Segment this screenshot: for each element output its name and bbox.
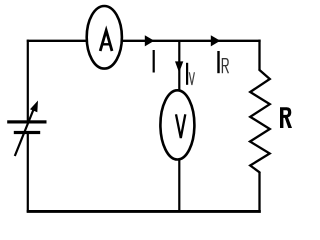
label IR: I bar bbox=[217, 51, 219, 73]
label I bbox=[153, 50, 155, 73]
resistor R zigzag bbox=[250, 70, 270, 172]
voltmeter U2 ellipse bbox=[160, 90, 194, 159]
wire: right branch bottom vertical bbox=[258, 172, 260, 213]
label R (resistor value) bbox=[280, 107, 292, 128]
wire: top horizontal from node B to top-right corner bbox=[27, 40, 261, 42]
current arrow IV down on middle branch bbox=[175, 61, 183, 72]
wire: left vertical upper segment bbox=[27, 40, 29, 121]
wire: bottom horizontal return bbox=[27, 210, 261, 213]
current arrow IR on top wire bbox=[211, 35, 221, 46]
label IR: R subscript bbox=[222, 58, 228, 73]
variable source arrowhead bbox=[30, 101, 38, 113]
variable source bottom plate bbox=[14, 131, 40, 134]
voltmeter glyph V bbox=[176, 114, 185, 138]
variable source top plate bbox=[7, 120, 46, 123]
label IV: V subscript bbox=[189, 72, 194, 85]
label IV: I bar bbox=[186, 63, 188, 85]
wire: left vertical lower segment bbox=[27, 134, 29, 213]
current arrow I on top wire bbox=[145, 35, 155, 46]
variable source diagonal arrow shaft bbox=[15, 110, 34, 157]
ammeter glyph A bbox=[100, 30, 112, 51]
wire: right branch top vertical bbox=[258, 40, 260, 71]
ammeter U1 ellipse bbox=[87, 6, 122, 69]
wire: middle voltmeter branch vertical bbox=[178, 40, 180, 211]
